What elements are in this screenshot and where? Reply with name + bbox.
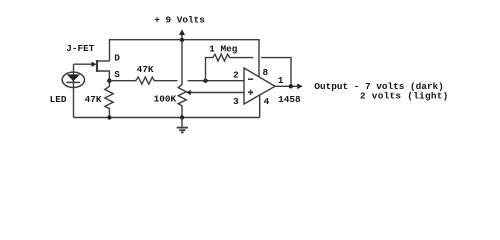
svg-text:LED: LED xyxy=(50,94,67,105)
op-amp minus sign xyxy=(248,78,253,80)
resistor R2 47K horizontal with wire to pin 2 xyxy=(109,77,244,84)
svg-text:100K: 100K xyxy=(154,94,177,105)
node output-feedback junction dot xyxy=(289,84,293,88)
resistor R4 1 Meg feedback loop xyxy=(206,54,292,86)
svg-text:3: 3 xyxy=(233,96,239,107)
wire source lead xyxy=(97,71,109,81)
svg-text:2 volts (light): 2 volts (light) xyxy=(360,90,449,101)
svg-text:1: 1 xyxy=(278,75,284,86)
LED D1 cathode bar xyxy=(66,81,80,83)
wire bottom ground rail xyxy=(74,117,260,119)
transistor Q1 gate arrow xyxy=(92,62,97,67)
node pot-ground junction dot xyxy=(180,115,184,119)
wire op-amp output xyxy=(275,85,298,87)
svg-text:1458: 1458 xyxy=(278,94,301,105)
power +9V arrow xyxy=(181,34,183,40)
wire pin 4 to ground rail xyxy=(259,95,261,117)
LED D1 triangle xyxy=(67,74,80,81)
node +9V junction dot xyxy=(180,38,184,42)
node S junction dot xyxy=(107,79,111,83)
op-amp plus sign xyxy=(248,90,253,95)
svg-text:J-FET: J-FET xyxy=(66,43,95,54)
wire top supply rail xyxy=(110,40,260,77)
svg-text:47K: 47K xyxy=(85,94,102,105)
svg-text:2: 2 xyxy=(233,69,239,80)
op-amp U1 triangle xyxy=(244,68,275,104)
svg-text:1 Meg: 1 Meg xyxy=(209,43,238,54)
svg-text:47K: 47K xyxy=(137,64,154,75)
svg-text:4: 4 xyxy=(264,96,270,107)
resistor R1 47K vertical xyxy=(105,81,113,118)
node feedback-pin2 junction dot xyxy=(203,79,207,83)
output arrowhead xyxy=(297,84,303,90)
svg-text:S: S xyxy=(114,69,120,80)
transistor Q1 J-FET channel bar xyxy=(96,60,98,72)
svg-text:D: D xyxy=(114,53,120,64)
node 47K-ground junction dot xyxy=(107,115,111,119)
potentiometer wiper arrow and wire to pin 3 xyxy=(190,92,244,94)
potentiometer R3 100K body xyxy=(178,40,186,118)
LED D1 ellipse xyxy=(62,72,84,87)
svg-text:8: 8 xyxy=(263,67,269,78)
svg-text:+ 9 Volts: + 9 Volts xyxy=(154,15,205,26)
ground symbol xyxy=(181,118,183,128)
wire gate lead xyxy=(74,63,93,65)
wire drain lead xyxy=(97,60,110,62)
wire LED branch vertical xyxy=(73,64,75,117)
